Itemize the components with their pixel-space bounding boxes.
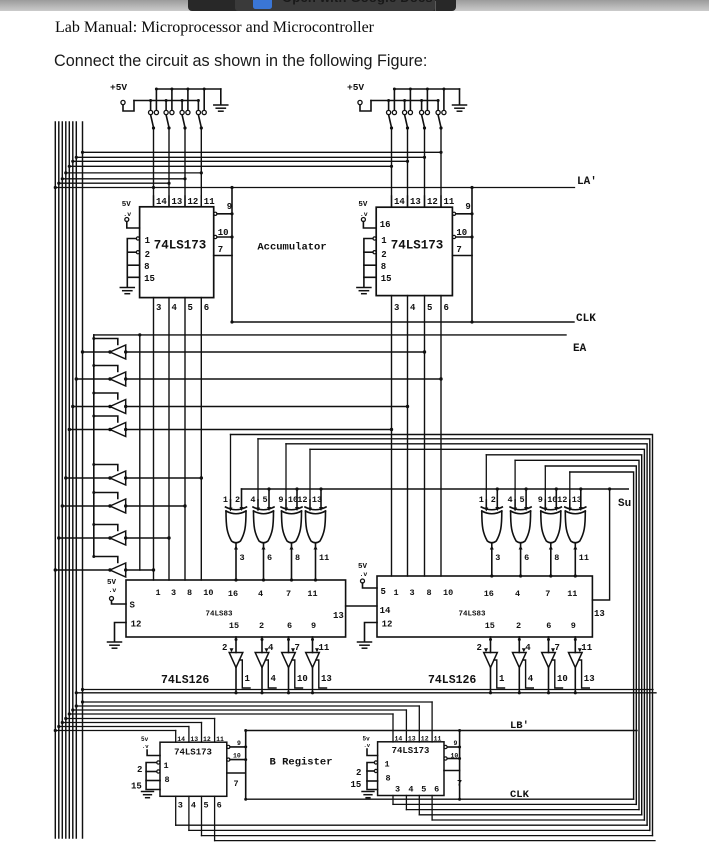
wire [83,701,433,703]
wire input A [257,500,259,507]
wire [76,156,424,158]
wire to ground [459,89,461,104]
wire from adder [261,637,263,653]
wire to ground [363,277,365,286]
wire from adder [288,637,290,653]
inverting bubble [136,237,139,240]
XOR gate X7 [538,487,562,577]
junction [519,574,522,577]
ground [362,792,374,798]
svg-text:4: 4 [410,303,416,313]
junction [547,691,550,694]
switch contact [196,110,200,114]
junction [124,568,127,571]
junction [290,578,293,581]
wire bus bracket [286,444,647,825]
wire [127,264,139,266]
junction [423,156,426,159]
node LA' [577,176,597,188]
junction [57,536,60,539]
wire input B (Su) [268,489,270,507]
junction [71,160,74,163]
wire LB&#39; [246,730,637,732]
svg-text:11: 11 [319,643,330,653]
wire output to adder [550,544,552,576]
wire output to adder [291,544,293,580]
junction [470,212,473,215]
wire input A [544,500,546,507]
svg-text:2: 2 [356,768,361,778]
junction [68,165,71,168]
junction [230,320,233,323]
wire output [312,668,314,693]
junction [124,428,127,431]
wire enable [94,465,118,471]
junction [92,555,95,558]
svg-text:2: 2 [235,495,240,505]
svg-text:7: 7 [234,779,239,789]
svg-text:16: 16 [228,589,238,599]
buffer B7 (tri-state) [57,523,171,545]
wire [393,803,636,805]
wire output to adder [315,544,317,580]
svg-text:10: 10 [557,674,568,684]
wire [175,796,177,825]
wire [514,460,516,500]
+5V terminal [121,100,125,104]
wire enable [94,525,118,531]
junction [437,99,440,102]
bus: top horizontal distribution [54,128,575,207]
wire [392,796,394,805]
wire enable chain [494,660,505,688]
ground [357,288,371,294]
wire lower rail [134,100,198,102]
svg-text:1: 1 [479,495,484,505]
svg-text:11: 11 [444,197,455,207]
wire input B (Su) [580,489,582,507]
junction [108,568,111,571]
junction [181,99,184,102]
svg-text:10: 10 [233,753,241,760]
svg-text:16: 16 [380,220,391,230]
wire CLK (bottom) [246,789,633,801]
junction [489,638,492,641]
wire to register pin [405,710,407,742]
junction [260,691,263,694]
svg-text:7: 7 [555,643,560,653]
wire [424,296,426,576]
switch contact [180,110,184,114]
svg-text:13: 13 [410,197,421,207]
node LB' [246,720,637,732]
svg-text:4: 4 [268,643,274,653]
junction [186,88,189,91]
wire input [126,505,185,507]
wire upper rail [394,88,459,90]
svg-text:9: 9 [454,740,458,747]
wire switch column to register input [153,128,155,207]
wire enable tie [364,239,376,278]
junction [406,126,409,129]
svg-text:5V: 5V [358,201,368,209]
inverting bubble [373,237,376,240]
junction [68,428,71,431]
switch bank SW2 (right) [347,82,467,130]
wire [127,251,136,253]
junction [230,186,233,189]
wire [188,796,190,830]
DIP switch (bit 2) [420,88,430,130]
wire output to adder [235,544,237,580]
wire bus line [58,122,60,838]
svg-text:9: 9 [465,202,470,212]
junction [108,428,111,431]
svg-text:13: 13 [572,495,582,505]
wire input [126,378,441,380]
5V terminal [361,579,365,583]
junction [92,491,95,494]
wire [364,264,376,266]
wire [200,298,202,580]
wire [418,796,420,815]
junction [490,574,493,577]
wire switch column to register input [440,128,442,207]
junction [458,798,461,801]
junction [390,126,393,129]
wire from adder [235,637,237,653]
wire enable tie [146,763,160,790]
wire [285,444,287,500]
wire pin9 [447,746,459,748]
junction [230,212,233,215]
wire [55,730,175,732]
svg-text:9: 9 [571,621,576,631]
buffer B1 (tri-state) [81,337,426,359]
svg-text:3: 3 [495,553,500,563]
svg-text:15: 15 [381,274,392,284]
svg-text:12: 12 [427,197,438,207]
DIP switch (bit 3) [436,88,446,130]
junction [183,177,186,180]
svg-text:7: 7 [286,589,291,599]
svg-text:74LS173: 74LS173 [174,748,212,758]
svg-text:S: S [130,601,136,611]
inverting bubble [444,745,447,748]
wire output to bus [83,351,111,353]
wire bus bracket [310,449,644,820]
IC U4 74LS83 (adder low) [358,563,605,648]
svg-text:8: 8 [144,262,149,272]
wire pin9 [217,213,232,215]
junction [124,504,127,507]
wire output to adder [491,544,493,576]
svg-text:11: 11 [567,589,577,599]
wire [569,472,571,500]
svg-text:8: 8 [187,588,192,598]
svg-text:3: 3 [156,303,161,313]
svg-text:6: 6 [267,553,272,563]
svg-text:7: 7 [456,245,461,255]
junction [165,99,168,102]
svg-text:3: 3 [178,801,183,811]
wire Su line [242,488,629,490]
buffer B3 (tri-state) [71,392,409,414]
inverting bubble [136,251,139,254]
wire pin12 to ground [365,623,378,642]
svg-text:74LS173: 74LS173 [392,746,430,756]
svg-text:4: 4 [258,589,263,599]
junction [311,638,314,641]
inverting bubble [214,235,217,238]
wire [59,182,169,184]
wire U4 pin13 to Su [592,487,611,600]
wire from adder [574,637,576,653]
junction [61,504,64,507]
wire [62,722,201,724]
IC body [378,742,444,796]
wire: accumulator outputs to adder A inputs [154,296,442,580]
switch contact [164,110,168,114]
switch contact [202,110,206,114]
wire input A [285,500,287,507]
svg-text:74LS126: 74LS126 [428,674,476,687]
wire input A [485,500,487,507]
junction [287,691,290,694]
svg-text:13: 13 [190,736,198,743]
wire [367,770,374,772]
svg-text:11: 11 [319,553,329,563]
junction [92,392,95,395]
svg-text:74LS173: 74LS173 [391,239,444,253]
wire bus line [54,122,56,838]
wire [184,298,186,580]
svg-text:2: 2 [477,643,482,653]
junction [423,350,426,353]
junction [287,638,290,641]
junction [439,126,442,129]
junction [81,151,84,154]
svg-text:10: 10 [203,588,213,598]
svg-text:13: 13 [312,495,322,505]
svg-text:9: 9 [278,495,283,505]
wire Vcc [147,750,160,756]
svg-text:8: 8 [381,262,386,272]
switch contact [387,110,391,114]
svg-text:3: 3 [394,303,399,313]
wire output to adder [520,544,522,576]
svg-text:4: 4 [528,674,534,684]
IC body [376,207,452,295]
junction [81,688,84,691]
wire enable [94,339,118,345]
buffer U6d 74LS126 [569,637,595,694]
svg-text:Accumulator: Accumulator [257,242,326,254]
inverting bubble [157,761,160,764]
inverting bubble [227,745,230,748]
switch contact [408,110,412,114]
switch contact [425,110,429,114]
junction [393,88,396,91]
inverting bubble [453,212,456,215]
svg-text:2: 2 [516,621,521,631]
wire [432,819,644,821]
svg-text:11: 11 [204,197,215,207]
wire to register pin [431,702,433,742]
junction [92,523,95,526]
wire upper rail [156,88,220,90]
svg-text:11: 11 [581,643,592,653]
wire enable chain [240,660,251,688]
svg-text:4: 4 [271,674,277,684]
wire switch column to register input [184,128,186,207]
svg-text:11: 11 [307,589,317,599]
svg-text:10: 10 [443,588,453,598]
wire enable chain [523,660,534,688]
svg-text:11: 11 [579,553,589,563]
svg-text:5: 5 [520,495,525,505]
wire [66,172,202,174]
wire [419,814,641,816]
junction [155,88,158,91]
wire to LA' line / CLK [471,188,473,323]
wire [146,771,157,773]
junction [152,126,155,129]
IC body [160,742,227,796]
wire [230,435,232,501]
svg-text:4: 4 [250,495,255,505]
junction [555,487,558,490]
wire input B (Su) [296,489,298,507]
wire pin7 [452,255,472,257]
svg-text:11: 11 [216,736,224,743]
svg-text:1: 1 [245,674,251,684]
svg-text:7: 7 [295,643,300,653]
svg-text:CLK: CLK [510,789,530,801]
wire output [518,668,520,693]
junction [183,126,186,129]
junction [200,126,203,129]
IC body [377,576,592,637]
svg-text:15: 15 [351,780,362,790]
junction [314,578,317,581]
svg-text:6: 6 [546,621,551,631]
junction [81,700,84,703]
junction [200,171,203,174]
wire [69,713,393,715]
junction [230,235,233,238]
switch lever [198,115,201,128]
buffer U5a 74LS126 [222,637,251,694]
svg-text:3: 3 [240,553,245,563]
ground [453,105,467,111]
junction [92,463,95,466]
wire +5V feed [123,101,134,112]
buffer U5d 74LS126 [306,637,332,694]
wire input B (Su) [496,489,498,507]
junction [235,638,238,641]
junction [92,364,95,367]
buffer B6 (tri-state) [61,491,187,513]
junction [470,235,473,238]
wire switch column to register input [407,128,409,207]
wire input A [309,500,311,507]
junction [124,350,127,353]
wire [367,780,378,782]
buffer B5 (tri-state) [64,463,203,485]
inverting bubble [227,758,230,761]
svg-text:6: 6 [444,303,449,313]
svg-text:7: 7 [218,245,223,255]
wire lower rail [371,100,438,102]
junction [71,405,74,408]
wire from adder [312,637,314,653]
inverting bubble [374,769,377,772]
wire [440,296,442,576]
junction [64,476,67,479]
svg-text:1: 1 [223,495,228,505]
svg-text:+5V: +5V [347,82,364,93]
junction [108,536,111,539]
junction [439,151,442,154]
wire [364,251,373,253]
junction [244,729,247,732]
junction [458,757,461,760]
junction [200,476,203,479]
bus: B-register feedback (right side brackets) [231,435,653,836]
wire bus line [75,122,77,838]
junction [261,638,264,641]
wire [214,796,216,840]
junction [92,337,95,340]
junction [518,638,521,641]
wire [215,840,655,842]
svg-text:Su: Su [618,498,631,510]
wire pin7 [214,255,232,257]
buffer U6c 74LS126 [542,637,568,694]
wire [201,796,203,835]
wire output to bus [55,569,110,571]
ground [120,288,134,294]
wire enable chain [552,660,563,688]
svg-text:1: 1 [145,236,151,246]
wire input [126,429,392,431]
svg-text:7: 7 [545,589,550,599]
wire input B (Su) [320,489,322,507]
svg-text:5: 5 [421,785,426,795]
switch lever [405,115,408,128]
svg-text:5: 5 [204,801,209,811]
wire Vcc to pin [363,583,378,588]
wire enable chain [266,660,277,688]
junction [54,729,57,732]
svg-text:3: 3 [171,588,176,598]
svg-text:+5V: +5V [110,82,127,93]
wire enable [94,557,118,563]
svg-text:2: 2 [145,250,150,260]
junction [525,487,528,490]
junction [406,405,409,408]
wire to ground [220,89,222,104]
svg-text:6: 6 [204,303,209,313]
switch lever [422,115,425,128]
wire bus bracket [258,439,650,831]
svg-text:8: 8 [427,588,432,598]
wire [76,692,656,694]
switch contact [442,110,446,114]
wire [55,187,574,189]
svg-text:2: 2 [259,621,264,631]
